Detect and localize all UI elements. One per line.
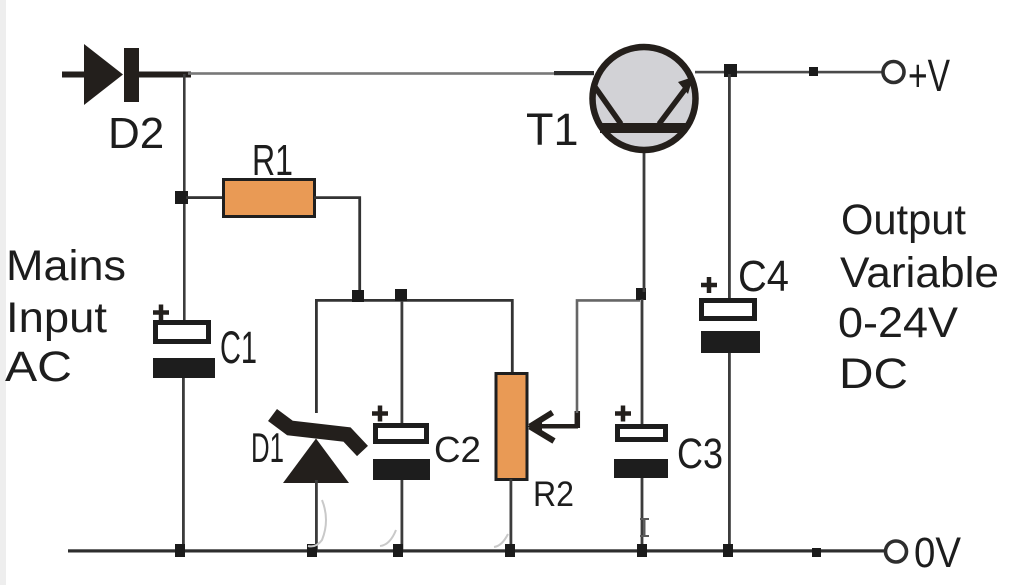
- R2 wiper arrow and wire to base node: [528, 300, 641, 441]
- wire D2 cathode to top corner: [139, 72, 191, 78]
- wire C4 top: [728, 74, 731, 300]
- wire C1 bottom to ground: [182, 378, 185, 551]
- svg-text:C2: C2: [434, 429, 481, 470]
- capacitor C4: [701, 277, 760, 552]
- junction at R1 branch: [175, 191, 188, 204]
- svg-text:R2: R2: [533, 475, 574, 514]
- svg-text:DC: DC: [839, 350, 908, 398]
- svg-text:+V: +V: [908, 50, 950, 101]
- resistor R1: [224, 180, 315, 217]
- svg-text:T1: T1: [526, 104, 579, 155]
- wire C3 artifact mark: [640, 519, 649, 536]
- svg-text:C3: C3: [677, 430, 723, 478]
- svg-text:Output: Output: [841, 196, 966, 244]
- wire D1 anode to ground: [315, 480, 318, 550]
- wire input lead to D2: [62, 72, 85, 78]
- terminal +V: [883, 50, 950, 101]
- wire R1 right lead and drop to bias rail: [314, 198, 360, 296]
- svg-text:D2: D2: [108, 109, 164, 158]
- transistor T1: [593, 47, 696, 150]
- junction ground at C3: [637, 544, 647, 557]
- svg-text:R1: R1: [252, 136, 293, 185]
- wire bottom ground rail: [68, 549, 886, 552]
- svg-text:Input: Input: [6, 294, 107, 342]
- diode D2: [84, 44, 139, 105]
- junction top rail at C4: [724, 64, 737, 77]
- capacitor C2: [372, 301, 430, 551]
- capacitor C3: [614, 406, 668, 553]
- svg-text:C1: C1: [220, 322, 257, 373]
- capacitor C1: [153, 305, 215, 379]
- wire bias rail: [316, 300, 512, 413]
- junction small ground rail: [812, 548, 821, 557]
- terminal 0V: [886, 529, 962, 577]
- junction small top rail: [809, 67, 818, 76]
- wire top rail right segment: [695, 71, 885, 74]
- label Mains Input AC: [5, 242, 126, 391]
- wire junction down to C3: [641, 299, 644, 425]
- wire R2 bottom to ground: [510, 479, 513, 551]
- junction bias rail at C2: [395, 289, 407, 301]
- wire T1 base down to junction: [643, 152, 646, 292]
- junction ground at D1: [307, 544, 317, 557]
- junction bias rail at R1: [352, 290, 364, 302]
- junction base node: [636, 288, 646, 300]
- junction ground at C1: [175, 544, 185, 557]
- watermark remnants: [308, 500, 508, 547]
- svg-text:0V: 0V: [914, 529, 961, 577]
- wire vertical from D2 corner down to C1: [183, 74, 186, 322]
- potentiometer R2: [496, 374, 527, 480]
- svg-text:D1: D1: [251, 424, 284, 471]
- junction ground at R2: [505, 544, 515, 557]
- wire top rail dark segment at T1: [554, 71, 594, 75]
- svg-text:0-24V: 0-24V: [838, 299, 958, 347]
- svg-text:Mains: Mains: [6, 242, 126, 290]
- svg-text:AC: AC: [5, 343, 72, 391]
- wire R1 left lead: [186, 196, 224, 199]
- svg-text:C4: C4: [738, 252, 789, 301]
- zener diode D1: [273, 415, 363, 483]
- svg-text:Variable: Variable: [840, 249, 999, 297]
- junction ground at C4: [723, 544, 733, 557]
- junction ground at C2: [393, 544, 403, 557]
- label Output Variable 0-24V DC: [838, 196, 999, 398]
- wire top rail left segment: [188, 72, 592, 75]
